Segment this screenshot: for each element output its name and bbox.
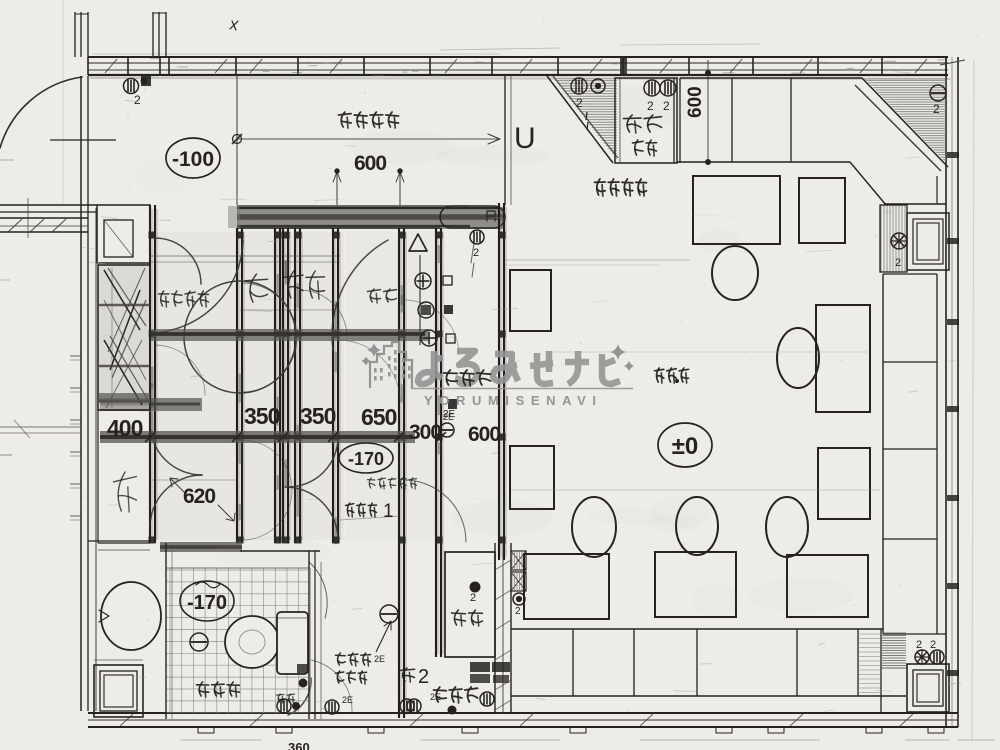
svg-text:350: 350 bbox=[244, 403, 280, 429]
svg-text:650: 650 bbox=[361, 404, 397, 430]
svg-text:600: 600 bbox=[468, 423, 500, 446]
svg-text:2: 2 bbox=[916, 639, 922, 651]
svg-text:2E: 2E bbox=[443, 412, 454, 422]
svg-text:2: 2 bbox=[473, 247, 479, 259]
svg-text:1: 1 bbox=[383, 501, 394, 522]
svg-text:360: 360 bbox=[288, 740, 310, 750]
svg-text:2E: 2E bbox=[430, 692, 441, 702]
svg-text:YORUMISENAVI: YORUMISENAVI bbox=[424, 393, 603, 408]
svg-text:620: 620 bbox=[183, 485, 215, 508]
svg-text:2: 2 bbox=[515, 606, 521, 617]
svg-text:2: 2 bbox=[470, 592, 476, 604]
svg-text:2E: 2E bbox=[374, 654, 385, 664]
svg-text:400: 400 bbox=[107, 415, 143, 441]
svg-text:-170: -170 bbox=[348, 449, 384, 469]
svg-text:2: 2 bbox=[895, 257, 901, 269]
svg-text:2E: 2E bbox=[342, 695, 353, 705]
svg-text:2: 2 bbox=[418, 666, 429, 688]
svg-text:-170: -170 bbox=[187, 592, 227, 614]
svg-text:2: 2 bbox=[134, 93, 141, 107]
svg-text:350: 350 bbox=[300, 403, 336, 429]
svg-text:2: 2 bbox=[930, 639, 936, 651]
svg-text:2: 2 bbox=[933, 102, 940, 116]
svg-text:±0: ±0 bbox=[672, 433, 699, 460]
